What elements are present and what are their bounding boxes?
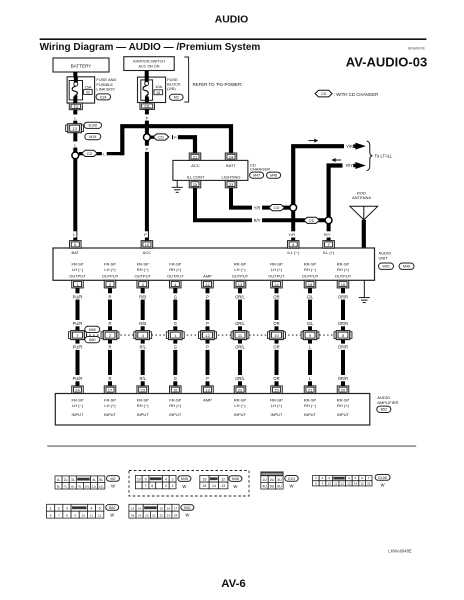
svg-text:R: R — [109, 321, 112, 326]
svg-text:W: W — [290, 484, 294, 489]
svg-text:4: 4 — [91, 507, 93, 511]
svg-text:PU/R: PU/R — [73, 321, 83, 326]
svg-text:LH (+): LH (+) — [271, 267, 283, 272]
svg-text:M65: M65 — [89, 328, 96, 332]
svg-text:10: 10 — [82, 514, 86, 518]
svg-text:P: P — [146, 115, 149, 120]
svg-text:REFER TO ‘PG-POWER’.: REFER TO ‘PG-POWER’. — [193, 82, 244, 87]
audio unit terminal 14 — [271, 280, 283, 288]
svg-text:10: 10 — [328, 481, 332, 485]
svg-text:RR-SP: RR-SP — [270, 397, 283, 402]
svg-text:M48: M48 — [270, 174, 277, 178]
svg-text:11L: 11L — [92, 484, 97, 488]
svg-text:RR-SP: RR-SP — [270, 262, 283, 267]
wire G/L audio unit to connector — [306, 288, 314, 331]
svg-text:13: 13 — [131, 507, 135, 511]
wire R/L connector to amplifier — [139, 340, 147, 386]
svg-text:LIGHTING: LIGHTING — [222, 175, 241, 180]
svg-text:21: 21 — [308, 388, 313, 393]
arrowhead R/Y to LT-ILL — [355, 162, 365, 169]
svg-text:To LT-ILL: To LT-ILL — [375, 154, 394, 159]
audio unit terminal 15 — [304, 280, 316, 288]
svg-text:8L: 8L — [71, 484, 75, 488]
harness connector refs M65 B60 — [85, 326, 100, 332]
CD branch of P wire to CD changer ACC — [150, 134, 165, 140]
svg-text:24: 24 — [174, 514, 178, 518]
svg-text:M45: M45 — [181, 477, 188, 481]
audio amplifier box — [55, 394, 370, 426]
inline connector 2 (M65/B60) — [101, 332, 103, 339]
fuse 15A block (battery) — [67, 77, 95, 103]
svg-text:12: 12 — [221, 478, 225, 482]
svg-text:: WITH CD CHANGER: : WITH CD CHANGER — [334, 92, 378, 97]
svg-text:P: P — [206, 294, 209, 299]
svg-text:AMP: AMP — [203, 397, 212, 402]
svg-text:R: R — [109, 294, 112, 299]
wire P audio unit to connector — [204, 288, 212, 331]
svg-text:INPUT: INPUT — [234, 412, 247, 417]
svg-text:P: P — [146, 147, 149, 152]
svg-text:23: 23 — [167, 514, 171, 518]
svg-text:AUDIO: AUDIO — [215, 15, 248, 26]
svg-text:M19: M19 — [89, 135, 96, 139]
svg-text:4: 4 — [165, 478, 167, 482]
svg-text:RR-SP: RR-SP — [234, 262, 247, 267]
audio unit terminal 4 — [170, 280, 182, 288]
CD changer terminal 24 — [225, 153, 237, 160]
svg-text:P: P — [174, 135, 177, 140]
svg-text:B60: B60 — [109, 506, 115, 510]
svg-text:E24: E24 — [100, 95, 106, 99]
svg-text:15: 15 — [274, 388, 279, 393]
svg-text:BATTERY: BATTERY — [71, 63, 92, 68]
svg-text:G: G — [174, 345, 177, 350]
svg-text:OR/L: OR/L — [235, 376, 245, 381]
arrowhead Y/R to LT-ILL — [355, 143, 365, 150]
wire OR/R audio unit to connector — [339, 288, 347, 331]
svg-text:OR/R: OR/R — [338, 294, 348, 299]
svg-text:G: G — [174, 321, 177, 326]
svg-text:11: 11 — [334, 481, 337, 485]
wire battery to fuse — [71, 72, 79, 78]
svg-text:INPUT: INPUT — [169, 412, 182, 417]
svg-text:6: 6 — [151, 484, 153, 488]
svg-text:R: R — [109, 345, 112, 350]
svg-text:6L: 6L — [57, 484, 61, 488]
R/Y wire down to audio unit pin 7 — [325, 224, 333, 241]
svg-text:7: 7 — [145, 484, 147, 488]
wire P down to audio unit ACC — [143, 141, 151, 241]
svg-text:2L: 2L — [64, 478, 68, 482]
svg-text:R/B: R/B — [139, 294, 146, 299]
junction circle P (CD changer option) — [144, 134, 151, 141]
svg-text:ILL (+): ILL (+) — [323, 250, 335, 255]
svg-text:(J/B): (J/B) — [167, 86, 176, 91]
svg-text:6U: 6U — [277, 484, 282, 488]
svg-text:OR/R: OR/R — [338, 376, 348, 381]
amplifier terminal 20 — [337, 386, 349, 394]
audio unit terminal 16 — [337, 280, 349, 288]
junction circle R/Y — [325, 217, 332, 224]
svg-text:14: 14 — [138, 507, 142, 511]
svg-text:16: 16 — [341, 282, 346, 287]
svg-text:CHANGER: CHANGER — [250, 166, 270, 171]
svg-text:BATT: BATT — [226, 163, 236, 168]
svg-text:FR-SP: FR-SP — [104, 397, 116, 402]
wire G audio unit to connector — [171, 288, 179, 331]
svg-text:23: 23 — [140, 388, 145, 393]
dashed option box around M45 M46 — [129, 471, 249, 497]
svg-text:W: W — [182, 484, 186, 489]
amplifier terminal 21 — [304, 386, 316, 394]
svg-text:ILL (−): ILL (−) — [287, 250, 299, 255]
svg-text:1L: 1L — [57, 478, 61, 482]
inline connector 1 (M65/B60) — [166, 332, 168, 339]
svg-text:12: 12 — [205, 282, 210, 287]
CD changer terminal 25 — [189, 180, 201, 187]
svg-text:PU/R: PU/R — [73, 345, 83, 350]
svg-text:M46: M46 — [403, 265, 410, 269]
audio unit terminal 7 ILL+ — [323, 241, 335, 249]
svg-text:R/Y: R/Y — [254, 218, 261, 223]
svg-text:13: 13 — [238, 282, 243, 287]
svg-text:9: 9 — [145, 478, 147, 482]
svg-text:OUTPUT: OUTPUT — [134, 274, 151, 279]
amplifier terminal 22 — [234, 386, 246, 394]
svg-text:W: W — [185, 513, 189, 518]
Y/R wire down to audio unit pin 8 — [289, 211, 297, 241]
svg-text:21: 21 — [193, 154, 198, 159]
svg-text:R/Y: R/Y — [346, 163, 353, 168]
svg-text:9L: 9L — [78, 484, 82, 488]
svg-text:32: 32 — [86, 91, 90, 95]
svg-text:OR/R: OR/R — [338, 321, 348, 326]
svg-text:FR-SP: FR-SP — [72, 397, 84, 402]
svg-text:E108: E108 — [378, 476, 386, 480]
svg-text:16: 16 — [167, 507, 171, 511]
connector ref E108 — [84, 122, 102, 128]
svg-text:OUTPUT: OUTPUT — [335, 274, 352, 279]
svg-text:R/Y: R/Y — [324, 232, 331, 237]
svg-text:CD: CD — [321, 92, 327, 96]
bracket refer to PG-POWER — [184, 57, 188, 102]
svg-text:M2: M2 — [174, 96, 179, 100]
connector ref M19 — [85, 134, 101, 140]
svg-text:PU/R: PU/R — [73, 294, 83, 299]
svg-text:2: 2 — [58, 507, 60, 511]
svg-text:OR/R: OR/R — [338, 345, 348, 350]
svg-text:14: 14 — [212, 484, 216, 488]
svg-text:IGNITION SWITCH: IGNITION SWITCH — [133, 60, 165, 64]
svg-text:P: P — [144, 232, 147, 237]
svg-text:FR-SP: FR-SP — [104, 262, 116, 267]
svg-text:LKWA0048E: LKWA0048E — [388, 549, 412, 554]
svg-text:12: 12 — [98, 514, 102, 518]
svg-text:12: 12 — [341, 481, 345, 485]
amplifier terminal 23 — [137, 386, 149, 394]
svg-text:M2: M2 — [111, 477, 116, 481]
audio unit terminal 2 — [104, 280, 116, 288]
svg-text:7L: 7L — [64, 484, 68, 488]
svg-text:AUDIO: AUDIO — [379, 251, 392, 256]
wire R audio unit to connector — [106, 288, 114, 331]
connector table E108 — [313, 476, 320, 481]
svg-text:OUTPUT: OUTPUT — [102, 274, 119, 279]
svg-text:20: 20 — [341, 388, 346, 393]
audio unit case ground — [363, 280, 365, 297]
svg-text:RR-SP: RR-SP — [304, 262, 317, 267]
svg-text:15A: 15A — [84, 84, 91, 89]
svg-text:25: 25 — [193, 182, 198, 187]
audio unit terminal 8 ILL- — [287, 241, 299, 249]
svg-text:Y/R: Y/R — [254, 206, 261, 211]
svg-text:R/L: R/L — [140, 376, 147, 381]
svg-text:ILL CONT: ILL CONT — [187, 175, 205, 180]
svg-text:LH (+): LH (+) — [104, 267, 116, 272]
svg-text:13: 13 — [72, 126, 77, 131]
svg-text:5: 5 — [99, 507, 101, 511]
svg-text:16: 16 — [367, 481, 371, 485]
inline connector 4 (M65/B60) — [134, 332, 136, 339]
svg-text:15: 15 — [159, 507, 163, 511]
svg-text:INPUT: INPUT — [137, 412, 150, 417]
dotted joint line between connectors — [78, 334, 344, 336]
svg-text:B52: B52 — [184, 506, 190, 510]
svg-text:RH (−): RH (−) — [137, 403, 150, 408]
svg-text:E24: E24 — [288, 477, 294, 481]
svg-text:13: 13 — [221, 484, 225, 488]
svg-text:AUDIO: AUDIO — [377, 395, 390, 400]
terminal 12L — [140, 103, 155, 110]
svg-text:RH (+): RH (+) — [169, 267, 182, 272]
svg-text:R/L: R/L — [140, 345, 147, 350]
inline connector 11 (M65/B60) — [231, 332, 233, 339]
svg-text:RH (−): RH (−) — [137, 267, 150, 272]
svg-text:17: 17 — [174, 507, 178, 511]
svg-text:CD: CD — [274, 206, 280, 210]
CD branch of L wire to CD changer BATT — [79, 150, 123, 156]
svg-text:16: 16 — [203, 478, 207, 482]
svg-text:OR: OR — [273, 345, 279, 350]
svg-text:RH (−): RH (−) — [304, 267, 317, 272]
svg-text:RR-SP: RR-SP — [337, 397, 350, 402]
wire PU/R audio unit to connector — [74, 288, 82, 331]
svg-text:2: 2 — [172, 478, 174, 482]
wire ILL CONT 25 to R/Y junction — [195, 188, 325, 221]
ignition switch box — [124, 57, 174, 71]
svg-text:Wiring Diagram — AUDIO — /Prem: Wiring Diagram — AUDIO — /Premium System — [40, 42, 261, 53]
wire L connector to amplifier — [306, 340, 314, 386]
svg-text:10: 10 — [145, 242, 150, 247]
svg-text:LINK BOX: LINK BOX — [96, 86, 115, 91]
svg-text:4L: 4L — [92, 478, 96, 482]
svg-text:18: 18 — [156, 91, 160, 95]
svg-text:RH (−): RH (−) — [304, 403, 317, 408]
connector ref M2 — [170, 94, 184, 100]
wire L below 1U — [71, 97, 79, 104]
svg-text:18: 18 — [131, 514, 135, 518]
svg-text:G: G — [174, 376, 177, 381]
wire PU/R connector to amplifier — [74, 340, 82, 386]
svg-text:24: 24 — [229, 154, 234, 159]
svg-text:LH (−): LH (−) — [234, 267, 246, 272]
svg-text:1: 1 — [172, 484, 174, 488]
svg-text:P: P — [206, 321, 209, 326]
svg-text:AV-6: AV-6 — [221, 578, 245, 590]
svg-text:10: 10 — [274, 333, 279, 338]
svg-text:OR/L: OR/L — [235, 345, 245, 350]
svg-text:20: 20 — [145, 514, 149, 518]
svg-text:INPUT: INPUT — [304, 412, 317, 417]
svg-text:INPUT: INPUT — [72, 412, 85, 417]
wire OR/L connector to amplifier — [236, 340, 244, 386]
svg-text:B52: B52 — [381, 408, 387, 412]
svg-text:10: 10 — [137, 478, 141, 482]
svg-text:3L: 3L — [71, 478, 75, 482]
direction arrow on R/Y — [335, 159, 341, 161]
svg-text:23: 23 — [229, 182, 234, 187]
svg-text:OR: OR — [273, 321, 279, 326]
svg-text:ANTENNA: ANTENNA — [352, 195, 371, 200]
svg-text:14: 14 — [274, 282, 279, 287]
audio unit terminal 3 — [137, 280, 149, 288]
svg-text:RR-SP: RR-SP — [304, 397, 317, 402]
svg-text:12L: 12L — [144, 103, 151, 108]
svg-text:UNIT: UNIT — [379, 256, 389, 261]
svg-text:19: 19 — [138, 514, 142, 518]
svg-text:M46: M46 — [232, 477, 239, 481]
audio unit box — [53, 248, 375, 280]
brace To LT-ILL — [367, 141, 373, 171]
svg-text:15: 15 — [361, 481, 365, 485]
svg-text:21: 21 — [152, 514, 156, 518]
svg-text:RR-SP: RR-SP — [337, 262, 350, 267]
legend CD hexagon — [315, 90, 332, 97]
connector table M46 — [200, 475, 209, 482]
svg-text:LH (+): LH (+) — [271, 403, 283, 408]
svg-text:15: 15 — [308, 282, 313, 287]
connector table M2 — [55, 476, 62, 483]
connector table M45 — [135, 475, 142, 482]
svg-text:OR: OR — [273, 376, 279, 381]
inline connector 8 (M65/B60) — [334, 332, 336, 339]
svg-text:M47: M47 — [253, 174, 260, 178]
wire L to junction — [71, 133, 79, 153]
header rule — [40, 38, 427, 41]
svg-text:15: 15 — [203, 484, 207, 488]
svg-text:INPUT: INPUT — [271, 412, 284, 417]
svg-text:3: 3 — [66, 507, 68, 511]
svg-text:LH (+): LH (+) — [104, 403, 116, 408]
svg-text:24: 24 — [75, 388, 80, 393]
svg-text:1U: 1U — [262, 478, 267, 482]
svg-text:1U: 1U — [73, 104, 78, 109]
inline connector 9 (M65/B60) — [301, 332, 303, 339]
svg-text:PU/R: PU/R — [73, 376, 83, 381]
svg-text:OUTPUT: OUTPUT — [167, 274, 184, 279]
svg-text:FR-SP: FR-SP — [169, 397, 181, 402]
inline connector 12 (M65/B60) — [199, 332, 201, 339]
audio unit terminal 13 — [234, 280, 246, 288]
svg-text:22: 22 — [159, 514, 163, 518]
svg-text:W: W — [233, 484, 237, 489]
svg-text:RR-SP: RR-SP — [234, 397, 247, 402]
battery box — [53, 58, 109, 72]
amplifier terminal 17 — [104, 386, 116, 394]
svg-text:OUTPUT: OUTPUT — [302, 274, 319, 279]
svg-text:12: 12 — [205, 333, 210, 338]
svg-text:CD: CD — [158, 136, 164, 140]
svg-text:3: 3 — [165, 484, 167, 488]
svg-text:W: W — [381, 482, 385, 487]
audio unit terminal 1 — [72, 280, 84, 288]
svg-text:E108: E108 — [89, 124, 97, 128]
wire OR/R connector to amplifier — [339, 340, 347, 386]
svg-text:RH (+): RH (+) — [337, 267, 350, 272]
wire OR/L audio unit to connector — [236, 288, 244, 331]
fuse 10A block (ignition) — [138, 77, 166, 102]
svg-text:INPUT: INPUT — [337, 412, 350, 417]
svg-text:OUTPUT: OUTPUT — [69, 274, 86, 279]
svg-text:10A: 10A — [155, 84, 162, 89]
svg-text:OR/L: OR/L — [235, 321, 245, 326]
svg-text:ACC: ACC — [191, 163, 200, 168]
svg-text:ACC OR ON: ACC OR ON — [139, 65, 160, 69]
svg-text:11: 11 — [90, 514, 93, 518]
inline connector 7 (M65/B60) — [69, 332, 71, 339]
svg-text:B60: B60 — [89, 338, 95, 342]
CD changer terminal 21 — [189, 153, 201, 160]
svg-text:G/L: G/L — [307, 294, 314, 299]
svg-text:14: 14 — [354, 481, 358, 485]
svg-text:G: G — [174, 294, 177, 299]
svg-text:FR-SP: FR-SP — [137, 262, 149, 267]
svg-text:3U: 3U — [277, 478, 282, 482]
wire R connector to amplifier — [106, 340, 114, 386]
separator rule — [47, 445, 416, 448]
svg-text:OUTPUT: OUTPUT — [232, 274, 249, 279]
svg-text:4U: 4U — [262, 484, 267, 488]
svg-text:13: 13 — [205, 388, 210, 393]
svg-text:ACC: ACC — [143, 250, 152, 255]
svg-text:P: P — [206, 376, 209, 381]
svg-text:BAT: BAT — [72, 250, 80, 255]
svg-text:FR-SP: FR-SP — [137, 397, 149, 402]
svg-text:R: R — [109, 376, 112, 381]
wire ignition to fuse — [143, 71, 151, 78]
Y/R wire up to LT-ILL arrow — [293, 146, 344, 204]
connector ref E24 — [96, 94, 111, 100]
svg-text:M45: M45 — [383, 265, 390, 269]
svg-text:RH (+): RH (+) — [337, 403, 350, 408]
amplifier terminal 16 — [170, 386, 182, 394]
connector table B52 — [129, 504, 136, 511]
svg-text:INPUT: INPUT — [104, 412, 117, 417]
amplifier terminal 13 — [202, 386, 214, 394]
svg-text:13: 13 — [347, 481, 351, 485]
svg-text:CD: CD — [309, 219, 315, 223]
svg-text:R/B: R/B — [139, 321, 146, 326]
svg-text:OUTPUT: OUTPUT — [268, 274, 285, 279]
junction circle Y/R — [290, 204, 297, 211]
wire LIGHTING 23 to Y/R junction — [231, 188, 290, 208]
svg-text:OR/L: OR/L — [235, 294, 245, 299]
svg-text:10L: 10L — [84, 484, 89, 488]
audio unit terminal 6 BAT — [70, 241, 82, 249]
svg-text:FR-SP: FR-SP — [169, 262, 181, 267]
audio unit terminal 10 ACC — [141, 241, 153, 249]
svg-text:AMPLIFIER: AMPLIFIER — [377, 400, 398, 405]
